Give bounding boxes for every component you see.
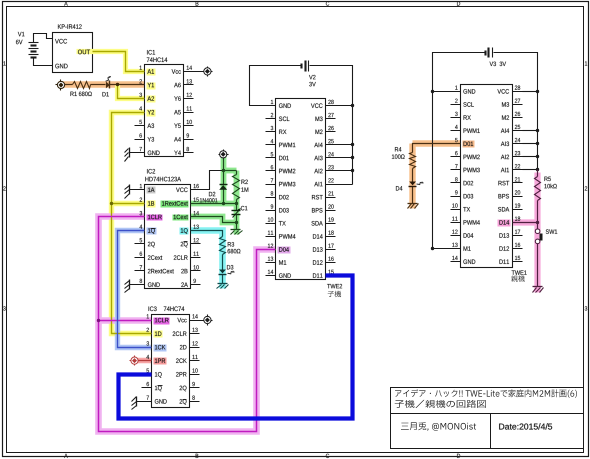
LED D3 <box>219 270 226 274</box>
ground at IC1 pin7 <box>130 152 135 154</box>
inverter IC1 74HC14 <box>147 50 155 55</box>
wire 1Cext net <box>191 217 237 223</box>
wire VCC to junction <box>223 159 225 171</box>
frame column labels <box>64 1 68 5</box>
wire net Y2 to IC2 1B and IC3 1D (yellow) <box>112 113 152 334</box>
resistor R2 1M <box>236 171 238 175</box>
title block <box>391 388 584 449</box>
label TWE2 kodomoki <box>328 291 341 297</box>
LED D1 <box>106 82 110 89</box>
terminal input <box>57 81 64 88</box>
net band yellow junction-A2 <box>118 85 145 99</box>
module KP-IR412 <box>53 33 93 73</box>
frame row labels <box>3 61 5 65</box>
wire D14 net (pink) <box>513 222 538 224</box>
wire net OUT to IC1 A1 (yellow) <box>93 52 145 72</box>
monostable IC2 HD74HC123A <box>147 169 155 174</box>
ground below C1 <box>231 229 241 231</box>
capacitor C1 <box>236 204 238 211</box>
ground below SW1 <box>533 286 543 288</box>
wire battery V2 to VCC rail <box>310 66 353 185</box>
LED D4 <box>409 182 416 186</box>
ground at IC2 pin1 <box>130 189 135 191</box>
wire R1 row <box>65 84 73 86</box>
resistor R5 10k <box>535 177 541 201</box>
terminal 1PR (red) <box>138 360 152 362</box>
battery V2 <box>300 64 302 69</box>
battery V3 <box>484 51 486 56</box>
power VCC at IC3 pin14 <box>200 320 203 322</box>
net band cyan 1Q-D3 <box>191 231 223 289</box>
net band orange R1 row <box>59 81 145 87</box>
wire 1Q net (cyan) <box>191 231 223 237</box>
ground at IC2 pin8 <box>130 284 135 286</box>
wire net IC2 1Qbar to IC3 1CK (blue) <box>118 231 152 348</box>
power VCC above D2 <box>220 151 227 158</box>
net band magenta 1CLR-D04 <box>99 217 276 432</box>
diode D2 1N4001 <box>223 171 225 185</box>
wire D01 net (orange) <box>413 144 461 153</box>
wire net 1CLR/D04 (magenta) <box>99 217 276 432</box>
label pin OUT <box>78 50 90 55</box>
ground at IC3 pin7 <box>137 401 142 403</box>
net band red 1PR <box>133 358 152 363</box>
wire 1RextCext net <box>191 203 237 205</box>
net band yellow Y2-1B-1D <box>112 113 152 334</box>
wire junction to IC1 A2 (yellow) <box>118 85 145 99</box>
module TWE2 <box>276 99 326 280</box>
net band green timing <box>221 157 227 204</box>
wire battery V3 left rail <box>433 53 485 249</box>
battery V1 <box>29 42 39 44</box>
net band orange D01-D4 <box>413 140 461 146</box>
switch SW1 <box>537 223 539 229</box>
ground below D3 <box>218 283 228 285</box>
module TWE1 <box>461 85 513 268</box>
net band yellow OUT-A1 <box>77 52 145 72</box>
wire battery V2 to GND <box>250 66 301 106</box>
net band blue 1Qbar-1CK <box>118 231 152 348</box>
wire battery V3 to VCC rail <box>494 53 538 170</box>
resistor R3 680 <box>220 237 226 255</box>
resistor R4 100 <box>410 153 416 169</box>
resistor R1 680 <box>73 82 91 89</box>
net band pink D14-SW1 <box>513 219 538 225</box>
node junction D1-Y1-A2 <box>116 83 119 86</box>
power VCC at IC1 pin14 <box>194 71 203 73</box>
ground below D4 <box>408 203 418 205</box>
label TWE1 oyaki <box>511 275 525 281</box>
flip-flop IC3 74HC74 <box>149 306 157 311</box>
wire net IC3 1Q to TWE2 D11 (thick blue) <box>119 276 353 419</box>
